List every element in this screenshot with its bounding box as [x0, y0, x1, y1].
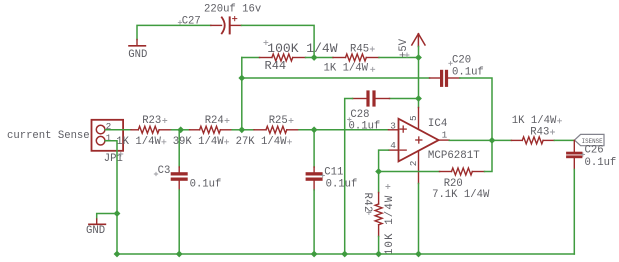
svg-text:R42: R42 — [361, 193, 373, 213]
svg-text:C28: C28 — [350, 109, 369, 121]
svg-text:1: 1 — [106, 133, 112, 144]
svg-text:1: 1 — [442, 130, 448, 141]
svg-text:C27: C27 — [182, 15, 201, 27]
svg-text:R45: R45 — [350, 44, 369, 56]
wire R42 to rail — [378, 237, 380, 255]
wire C28 left drop — [390, 98, 419, 100]
resistor R45 1K 1/4W — [324, 44, 380, 75]
svg-text:1K 1/4W: 1K 1/4W — [116, 136, 161, 148]
junction rail C3 — [176, 251, 183, 258]
svg-text:2: 2 — [408, 161, 419, 167]
junction C28/+5V pin5 — [415, 95, 422, 102]
svg-text:3: 3 — [390, 121, 396, 132]
wire GND1 to C27 top rail — [137, 25, 211, 39]
wire junction to R25 — [242, 129, 254, 131]
wire junction to op-amp pin3 — [314, 129, 388, 131]
svg-text:0.1uf: 0.1uf — [326, 179, 358, 191]
junction R25/C11/pin3 — [311, 126, 318, 133]
junction GND branch — [114, 210, 121, 217]
svg-text:0.1uf: 0.1uf — [190, 179, 222, 191]
junction rail JP1 — [114, 251, 121, 258]
svg-text:1K 1/4W: 1K 1/4W — [512, 115, 557, 127]
svg-text:0.1uf: 0.1uf — [585, 157, 617, 169]
capacitor C28 0.1uf — [349, 90, 390, 132]
wire output to R43 — [492, 139, 511, 141]
svg-text:4: 4 — [390, 140, 396, 151]
junction R24/R25/upper branch — [238, 126, 245, 133]
svg-text:R25: R25 — [269, 115, 288, 127]
wire to GND2 — [97, 214, 117, 220]
junction +5V — [415, 54, 422, 61]
resistor R43 1K 1/4W — [511, 115, 557, 144]
svg-text:27K 1/4W: 27K 1/4W — [236, 136, 288, 148]
wire R44 left — [242, 57, 260, 59]
svg-text:JP1: JP1 — [104, 153, 123, 165]
supply +5V — [398, 34, 425, 58]
wire R25 to junction — [299, 129, 314, 131]
resistor R24 39K 1/4W — [173, 115, 232, 148]
junction rail C11 — [311, 251, 318, 258]
wire R43 to ISENSE — [554, 139, 574, 141]
wire R45 to +5V — [379, 57, 419, 59]
capacitor C20 0.1uf — [430, 55, 484, 87]
junction rail R42 — [375, 251, 382, 258]
wire op-amp pin2 to rail — [418, 184, 420, 255]
svg-text:IC4: IC4 — [428, 118, 447, 130]
svg-text:1K 1/4W: 1K 1/4W — [324, 63, 369, 75]
ground GND2 — [86, 219, 105, 237]
wire op-amp pin4 feedback node — [379, 150, 389, 171]
wire +5V down — [418, 47, 420, 108]
svg-text:7.1K 1/4W: 7.1K 1/4W — [432, 189, 490, 201]
svg-text:R43: R43 — [530, 126, 549, 138]
junction feedback node — [375, 168, 382, 175]
resistor R23 1K 1/4W — [116, 115, 171, 148]
capacitor C27 220uf 16v polarized — [182, 4, 262, 34]
net flag ISENSE — [575, 134, 605, 145]
origin cross marks — [119, 21, 585, 178]
ground GND1 — [128, 40, 147, 62]
wire C20 to output node — [460, 78, 492, 140]
svg-text:GND: GND — [128, 49, 147, 61]
wire R44 row left vertical branch — [241, 58, 243, 130]
wire junction to R24 — [181, 129, 190, 131]
svg-text:C26: C26 — [585, 144, 604, 156]
svg-text:GND: GND — [86, 225, 105, 237]
wire R23 to junction — [171, 129, 180, 131]
wire feedback to R20 — [379, 171, 440, 173]
capacitor C26 0.1uf — [566, 140, 616, 169]
junction C20 branch — [238, 75, 245, 82]
wire R24 to junction — [232, 129, 242, 131]
junction rail pin2 — [415, 251, 422, 258]
wire C20 row left — [242, 77, 430, 79]
capacitor C11 0.1uf — [306, 130, 358, 191]
svg-text:10K 1/4W: 10K 1/4W — [384, 195, 396, 255]
junction output node — [489, 137, 496, 144]
wire R20 to output node — [485, 140, 493, 171]
junction R23/R24/C3 — [177, 126, 184, 133]
capacitor C3 0.1uf — [158, 130, 222, 191]
svg-text:0.1uf: 0.1uf — [452, 66, 484, 78]
svg-text:R23: R23 — [142, 115, 161, 127]
resistor R42 10K 1/4W vertical — [361, 172, 396, 256]
wire C28 left down to ground rail — [345, 99, 353, 255]
wire junction to R45 — [314, 57, 333, 59]
junction rail C28 — [341, 251, 348, 258]
svg-text:C11: C11 — [324, 166, 343, 178]
svg-text:220uf 16v: 220uf 16v — [204, 4, 261, 16]
svg-text:MCP6281T: MCP6281T — [428, 150, 480, 162]
wire ground rail — [117, 253, 574, 255]
resistor R25 27K 1/4W — [236, 115, 299, 148]
op-amp IC4 MCP6281T — [389, 108, 481, 184]
connector JP1 current Sense — [92, 120, 124, 165]
svg-text:100K 1/4W: 100K 1/4W — [267, 41, 337, 56]
wire R44 to junction — [306, 57, 315, 59]
svg-text:C20: C20 — [452, 55, 471, 67]
svg-text:R24: R24 — [205, 115, 224, 127]
svg-text:5: 5 — [408, 115, 419, 121]
wire op-amp output — [449, 139, 492, 141]
svg-text:R44: R44 — [265, 59, 287, 73]
wire C11 to rail — [313, 190, 315, 254]
resistor R20 7.1K 1/4W — [432, 168, 490, 201]
wire C27 to R44/R45 row — [242, 25, 315, 57]
svg-text:current Sense: current Sense — [7, 130, 90, 142]
resistor R44 100K 1/4W — [260, 41, 338, 73]
wire C26 to rail — [573, 170, 575, 255]
wire JP1 pin2 to R23 — [105, 129, 131, 131]
junction R44/R45/C27 — [311, 54, 318, 61]
svg-text:R20: R20 — [444, 178, 463, 190]
wire JP1 pin1 down — [105, 141, 117, 254]
svg-text:39K 1/4W: 39K 1/4W — [173, 136, 225, 148]
svg-text:C3: C3 — [158, 165, 171, 177]
wire C3 to rail — [178, 190, 180, 254]
svg-text:0.1uf: 0.1uf — [349, 120, 381, 132]
